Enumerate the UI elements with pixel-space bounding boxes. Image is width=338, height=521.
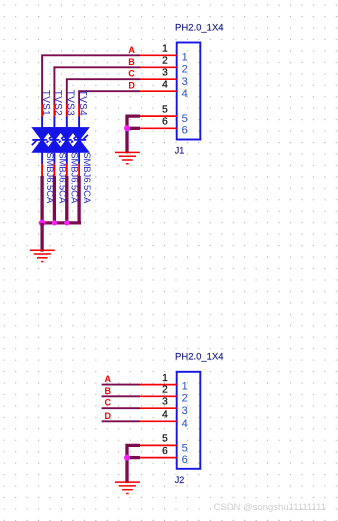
wire net D (J1) — [79, 91, 140, 104]
svg-text:6: 6 — [182, 125, 188, 137]
svg-text:2: 2 — [182, 392, 188, 404]
pin 1 (J1) — [140, 43, 188, 64]
pin 2 (J2) — [140, 384, 188, 405]
svg-text:C: C — [105, 398, 112, 408]
pin 3 (J2) — [140, 396, 188, 417]
svg-text:CSDN @songshu11111111: CSDN @songshu11111111 — [214, 502, 326, 513]
svg-text:D: D — [105, 411, 112, 421]
svg-text:5: 5 — [162, 433, 168, 445]
connector J2 body (PH2.0_1X4) — [177, 372, 201, 469]
wire TVS3 to GND bus (thick) — [65, 176, 68, 223]
wire pin6 to junction (J2, thick) — [127, 456, 140, 459]
junction TVS3/bus — [64, 220, 69, 225]
pin 1 (J2) — [140, 372, 188, 393]
wire TVS2 to GND bus (thick) — [53, 176, 56, 223]
TVS1 SMBJ6.5CA bidirectional TVS diode — [32, 104, 51, 176]
wire net B (J1) — [54, 67, 140, 104]
svg-text:5: 5 — [162, 103, 168, 115]
svg-text:SMBJ6.5CA: SMBJ6.5CA — [81, 152, 92, 204]
svg-text:4: 4 — [162, 409, 168, 421]
junction pin6/gnd wire (J1) — [124, 125, 130, 131]
svg-text:1: 1 — [162, 372, 168, 384]
svg-text:6: 6 — [162, 116, 168, 128]
svg-text:J1: J1 — [175, 146, 185, 156]
ground (J1 pins 5-6) — [115, 152, 140, 163]
pin 2 (J1) — [140, 55, 188, 76]
svg-text:3: 3 — [182, 76, 188, 88]
wire bus to ground (thick) — [40, 223, 43, 252]
svg-text:6: 6 — [162, 445, 168, 457]
ground (TVS bus) — [30, 250, 55, 261]
svg-text:2: 2 — [182, 63, 188, 75]
svg-text:4: 4 — [162, 79, 168, 91]
wire net C (J2) — [102, 407, 140, 409]
svg-text:B: B — [128, 57, 135, 67]
wire net B (J2) — [102, 395, 140, 397]
pin 5 (J2) — [140, 433, 188, 455]
pin 4 (J1) — [140, 79, 188, 100]
svg-text:3: 3 — [162, 396, 168, 408]
svg-text:D: D — [128, 81, 135, 91]
svg-text:A: A — [128, 45, 135, 55]
pin 5 (J1) — [140, 103, 188, 125]
svg-text:TVS1: TVS1 — [40, 90, 51, 116]
junction TVS2/bus — [52, 220, 57, 225]
svg-text:A: A — [105, 374, 112, 384]
svg-text:4: 4 — [182, 88, 188, 100]
svg-text:4: 4 — [182, 418, 188, 430]
TVS3 SMBJ6.5CA bidirectional TVS diode — [58, 104, 76, 176]
svg-text:B: B — [105, 386, 112, 396]
svg-text:3: 3 — [162, 67, 168, 79]
svg-text:3: 3 — [182, 405, 188, 417]
junction TVS1/bus — [39, 220, 46, 227]
junction pin6/gnd wire (J2) — [124, 455, 130, 461]
wire pin6 to junction (J1, thick) — [127, 127, 140, 130]
pin 3 (J1) — [140, 67, 188, 88]
svg-text:TVS4: TVS4 — [77, 90, 88, 116]
wire pin5 to ground (J2, thick) — [127, 445, 140, 483]
wire net D (J2) — [102, 420, 140, 422]
wire TVS1 to GND bus (thick) — [40, 176, 43, 223]
svg-text:1: 1 — [162, 43, 168, 55]
svg-text:1: 1 — [182, 51, 188, 63]
wire TVS4 to GND bus (thick) — [77, 176, 80, 223]
wire pin5 to ground (J1, thick) — [127, 116, 140, 153]
svg-text:C: C — [128, 69, 135, 79]
ground (J2 pins 5-6) — [115, 482, 140, 493]
svg-text:5: 5 — [182, 113, 188, 125]
GND bus horizontal wire (thick) — [40, 221, 81, 224]
svg-text:5: 5 — [182, 442, 188, 454]
svg-text:1: 1 — [182, 381, 188, 393]
wire net C (J1) — [67, 79, 140, 104]
svg-text:2: 2 — [162, 384, 168, 396]
pin 6 (J2) — [140, 445, 188, 466]
svg-text:2: 2 — [162, 55, 168, 67]
svg-text:PH2.0_1X4: PH2.0_1X4 — [175, 22, 224, 33]
pin 6 (J1) — [140, 116, 188, 137]
svg-text:PH2.0_1X4: PH2.0_1X4 — [175, 352, 224, 363]
svg-text:J2: J2 — [175, 475, 185, 485]
pin 4 (J2) — [140, 409, 188, 430]
wire net A (J1): horizontal+vertical maroon segment — [42, 55, 140, 104]
svg-text:TVS3: TVS3 — [65, 90, 76, 116]
wire net A (J2) — [102, 384, 140, 386]
TVS4 SMBJ6.5CA bidirectional TVS diode — [70, 104, 88, 176]
TVS2 SMBJ6.5CA bidirectional TVS diode — [45, 104, 63, 176]
connector J1 body (PH2.0_1X4) — [177, 43, 201, 140]
svg-text:6: 6 — [182, 454, 188, 466]
svg-text:TVS2: TVS2 — [52, 90, 63, 116]
